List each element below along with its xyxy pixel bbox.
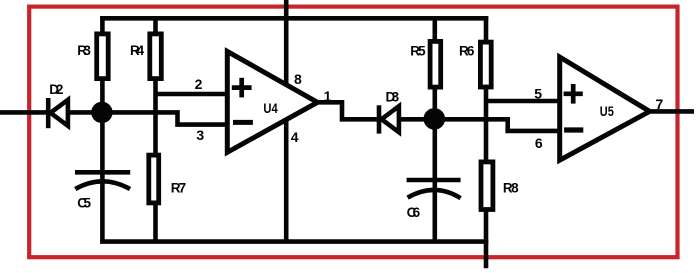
svg-text:D3: D3	[386, 89, 400, 104]
svg-text:6: 6	[535, 135, 543, 151]
resistor R6	[480, 42, 491, 87]
svg-text:D2: D2	[49, 82, 63, 97]
svg-text:R5: R5	[410, 44, 426, 59]
diode D2	[48, 98, 68, 128]
wire R5 stub from rail to node B	[432, 18, 437, 119]
wire R3 / C5 vertical string	[100, 16, 105, 242]
resistor R8	[481, 162, 493, 210]
wire U4 output pin 1 jog to D3 anode	[317, 102, 379, 119]
node B junction dot	[424, 108, 446, 130]
op-amp U5	[560, 57, 650, 160]
wire top supply rail	[100, 16, 488, 21]
svg-text:R7: R7	[171, 180, 186, 195]
svg-text:U4: U4	[263, 100, 277, 116]
wire R4 / R7 vertical string	[153, 16, 158, 242]
wire node string to U4 pin 2	[156, 92, 228, 97]
wire U4 power vertical through pins 8 and 4	[284, 0, 289, 242]
resistor R7	[149, 155, 159, 203]
svg-text:5: 5	[534, 85, 542, 101]
svg-text:U5: U5	[600, 103, 614, 119]
svg-text:2: 2	[195, 76, 203, 92]
svg-text:1: 1	[324, 88, 332, 104]
wire node B down through C6 to bottom rail	[432, 119, 437, 242]
wire D3 cathode to node B and jog to U5 pin 6	[398, 119, 562, 131]
svg-text:C5: C5	[77, 195, 91, 210]
resistor R5	[430, 41, 441, 87]
svg-text:R6: R6	[459, 44, 475, 59]
svg-text:7: 7	[656, 96, 664, 112]
wire R6 / R8 vertical string	[484, 16, 489, 268]
svg-text:R8: R8	[503, 180, 519, 195]
wire U5 output pin 7	[649, 109, 694, 114]
wire input left to D2 anode	[0, 110, 48, 115]
wire R6 tap to U5 pin 5	[486, 99, 561, 104]
svg-text:4: 4	[291, 129, 299, 145]
svg-text:R4: R4	[130, 43, 145, 58]
svg-text:R3: R3	[77, 43, 91, 58]
diode D3	[379, 105, 399, 133]
resistor R4	[150, 34, 162, 79]
wire D2 cathode to node A and jog to U4 pin 3	[66, 112, 228, 124]
resistor R3	[97, 34, 109, 79]
capacitor C5	[75, 172, 130, 189]
node A junction dot	[91, 102, 112, 123]
svg-text:3: 3	[196, 127, 204, 143]
op-amp U4	[227, 51, 317, 152]
capacitor C6	[407, 180, 461, 198]
svg-text:8: 8	[294, 71, 302, 87]
wire bottom ground rail	[100, 239, 488, 244]
svg-text:C6: C6	[407, 205, 421, 220]
